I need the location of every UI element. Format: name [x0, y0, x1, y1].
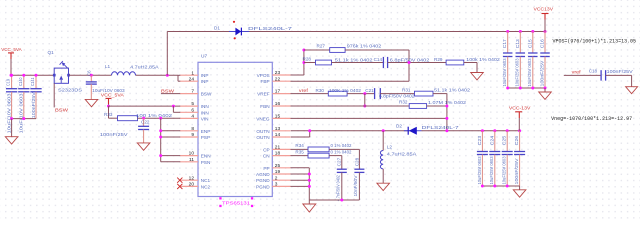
svg-text:OUTN: OUTN: [256, 129, 269, 134]
svg-text:vref: vref: [572, 69, 582, 74]
svg-text:10: 10: [189, 151, 195, 157]
svg-text:VCC-13V: VCC-13V: [509, 106, 531, 112]
svg-text:VCC13V: VCC13V: [534, 6, 554, 12]
svg-text:INN: INN: [201, 110, 209, 115]
svg-text:Vneg=-1070/100*1.213=-12.97: Vneg=-1070/100*1.213=-12.97: [551, 116, 632, 122]
svg-text:100nF/25V: 100nF/25V: [100, 132, 129, 137]
svg-text:10uF/25V 0603: 10uF/25V 0603: [502, 58, 507, 87]
svg-text:PGND: PGND: [256, 178, 270, 183]
svg-text:51.1k 1% 0402: 51.1k 1% 0402: [335, 57, 373, 62]
svg-text:INN: INN: [201, 104, 209, 109]
svg-text:0 1% 0402: 0 1% 0402: [331, 150, 352, 155]
svg-text:3: 3: [275, 182, 278, 188]
svg-text:12: 12: [189, 175, 195, 181]
svg-text:23: 23: [275, 70, 281, 76]
svg-text:VPOS: VPOS: [257, 73, 270, 78]
svg-text:PP: PP: [263, 166, 269, 171]
svg-text:10uF/10V 0603: 10uF/10V 0603: [19, 93, 24, 134]
svg-text:R35: R35: [295, 150, 304, 155]
svg-text:6.8pF/50V 0402: 6.8pF/50V 0402: [390, 57, 430, 62]
svg-text:C28: C28: [354, 157, 359, 166]
svg-text:U7: U7: [201, 54, 207, 60]
svg-text:10uF/25V 0603: 10uF/25V 0603: [502, 156, 507, 185]
svg-text:100nF/25V: 100nF/25V: [539, 60, 544, 86]
svg-text:L2: L2: [387, 145, 393, 150]
svg-text:16: 16: [275, 101, 281, 107]
svg-text:DFLS240L-7: DFLS240L-7: [422, 125, 460, 130]
svg-text:BSW: BSW: [55, 108, 69, 113]
svg-text:6.8pF/50V 0402: 6.8pF/50V 0402: [379, 94, 415, 99]
svg-text:100nF/25V: 100nF/25V: [514, 158, 519, 184]
svg-text:C13: C13: [515, 39, 520, 49]
svg-text:R32: R32: [399, 100, 408, 105]
svg-text:vref: vref: [299, 88, 309, 93]
svg-text:C26: C26: [514, 135, 519, 145]
svg-text:L1: L1: [105, 64, 111, 69]
svg-text:14: 14: [275, 132, 281, 138]
svg-text:9: 9: [191, 132, 194, 138]
svg-text:4.7uH2.85A: 4.7uH2.85A: [387, 151, 418, 156]
svg-text:10uF/25V 0603: 10uF/25V 0603: [489, 156, 494, 185]
svg-text:R30: R30: [316, 88, 325, 93]
svg-text:10uF/25V 0603: 10uF/25V 0603: [515, 58, 520, 87]
svg-text:13: 13: [275, 126, 281, 132]
svg-text:C27: C27: [337, 157, 342, 166]
svg-text:6: 6: [191, 107, 194, 113]
svg-text:R29: R29: [434, 57, 443, 62]
svg-text:C18: C18: [589, 69, 598, 74]
svg-text:19: 19: [275, 169, 281, 175]
svg-text:PSP: PSP: [201, 135, 210, 140]
svg-text:R34: R34: [295, 143, 304, 148]
svg-text:10uF/10V 0603: 10uF/10V 0603: [6, 93, 11, 134]
svg-text:10nF/50V: 10nF/50V: [353, 175, 358, 196]
svg-text:PSN: PSN: [201, 160, 211, 165]
svg-text:7: 7: [191, 89, 194, 95]
svg-text:976k 1% 0402: 976k 1% 0402: [347, 44, 382, 49]
svg-text:25: 25: [275, 163, 281, 169]
svg-text:VNEG: VNEG: [256, 116, 270, 121]
svg-text:INP: INP: [201, 73, 209, 78]
svg-text:FBP: FBP: [260, 79, 269, 84]
svg-text:BSW: BSW: [201, 92, 212, 97]
svg-text:18: 18: [275, 151, 281, 157]
svg-text:5: 5: [191, 101, 194, 107]
svg-text:10uF/10V 0603: 10uF/10V 0603: [92, 88, 125, 93]
svg-text:NC1: NC1: [201, 178, 211, 183]
svg-text:17: 17: [275, 89, 281, 95]
svg-text:4: 4: [191, 114, 194, 120]
svg-text:ENP: ENP: [201, 129, 211, 134]
svg-text:100k 1% 0402: 100k 1% 0402: [466, 57, 500, 62]
svg-text:OUTN: OUTN: [256, 135, 269, 140]
svg-text:51.1k 1% 0402: 51.1k 1% 0402: [434, 87, 471, 92]
svg-text:15: 15: [275, 114, 281, 120]
svg-text:C22: C22: [141, 119, 150, 124]
svg-text:PGND: PGND: [256, 184, 270, 189]
svg-text:C24: C24: [489, 135, 494, 145]
svg-text:100nF/25V: 100nF/25V: [607, 69, 633, 74]
svg-text:C14: C14: [374, 57, 383, 62]
svg-text:20: 20: [189, 182, 195, 188]
svg-text:NC2: NC2: [201, 184, 211, 189]
svg-text:VREF: VREF: [257, 92, 270, 97]
svg-text:AGND: AGND: [256, 172, 270, 177]
svg-text:R28: R28: [303, 56, 312, 61]
svg-text:C6: C6: [86, 70, 91, 76]
svg-text:R31: R31: [402, 87, 411, 92]
svg-text:DFLS240L-7: DFLS240L-7: [248, 26, 293, 31]
svg-text:C141: C141: [30, 77, 35, 86]
svg-text:10uF/25V 0603: 10uF/25V 0603: [477, 156, 482, 185]
svg-text:ENN: ENN: [201, 154, 211, 159]
svg-text:1.07M 1% 0402: 1.07M 1% 0402: [428, 100, 467, 105]
svg-text:VIN: VIN: [201, 116, 209, 121]
svg-text:10uF/25V 0603: 10uF/25V 0603: [527, 58, 532, 87]
svg-text:FBN: FBN: [260, 104, 269, 109]
svg-text:R27: R27: [317, 43, 326, 48]
svg-text:1: 1: [191, 70, 194, 76]
svg-text:BSW: BSW: [161, 88, 175, 93]
svg-text:INP: INP: [201, 79, 209, 84]
svg-text:C17: C17: [502, 39, 507, 49]
svg-text:VPOS=(976/100+1)*1.213=13.05: VPOS=(976/100+1)*1.213=13.05: [553, 38, 637, 44]
svg-text:100nF/25V: 100nF/25V: [31, 92, 36, 118]
svg-text:4.7nF/50V 0402: 4.7nF/50V 0402: [336, 175, 341, 202]
svg-text:D1: D1: [214, 26, 220, 31]
svg-text:TPS65131: TPS65131: [222, 201, 250, 207]
svg-text:R33: R33: [104, 112, 113, 117]
svg-text:21: 21: [275, 145, 281, 151]
svg-text:CP: CP: [263, 147, 270, 152]
svg-text:Q1: Q1: [48, 50, 55, 55]
svg-text:11: 11: [189, 157, 194, 163]
svg-text:CN: CN: [263, 154, 270, 159]
svg-text:4.7uH2.85A: 4.7uH2.85A: [130, 64, 160, 69]
svg-text:C140: C140: [18, 77, 23, 86]
svg-text:100K 1% 0402: 100K 1% 0402: [329, 88, 362, 93]
svg-text:D2: D2: [396, 124, 402, 129]
svg-text:VCC_5VA: VCC_5VA: [101, 92, 125, 98]
svg-text:C21: C21: [365, 88, 374, 93]
svg-text:VCC_5VA: VCC_5VA: [1, 47, 22, 53]
svg-text:S2323DS: S2323DS: [58, 87, 82, 92]
svg-text:C25: C25: [502, 135, 507, 145]
svg-text:C16: C16: [540, 39, 545, 49]
svg-text:0 1% 0402: 0 1% 0402: [331, 143, 352, 148]
svg-text:C23: C23: [477, 135, 482, 145]
svg-text:8: 8: [191, 126, 194, 132]
svg-text:2: 2: [275, 175, 278, 181]
svg-text:24: 24: [189, 76, 195, 82]
svg-text:C19: C19: [6, 78, 11, 86]
svg-text:22: 22: [275, 76, 281, 82]
svg-text:C15: C15: [527, 39, 532, 49]
svg-text:100 1% 0402: 100 1% 0402: [136, 113, 173, 118]
